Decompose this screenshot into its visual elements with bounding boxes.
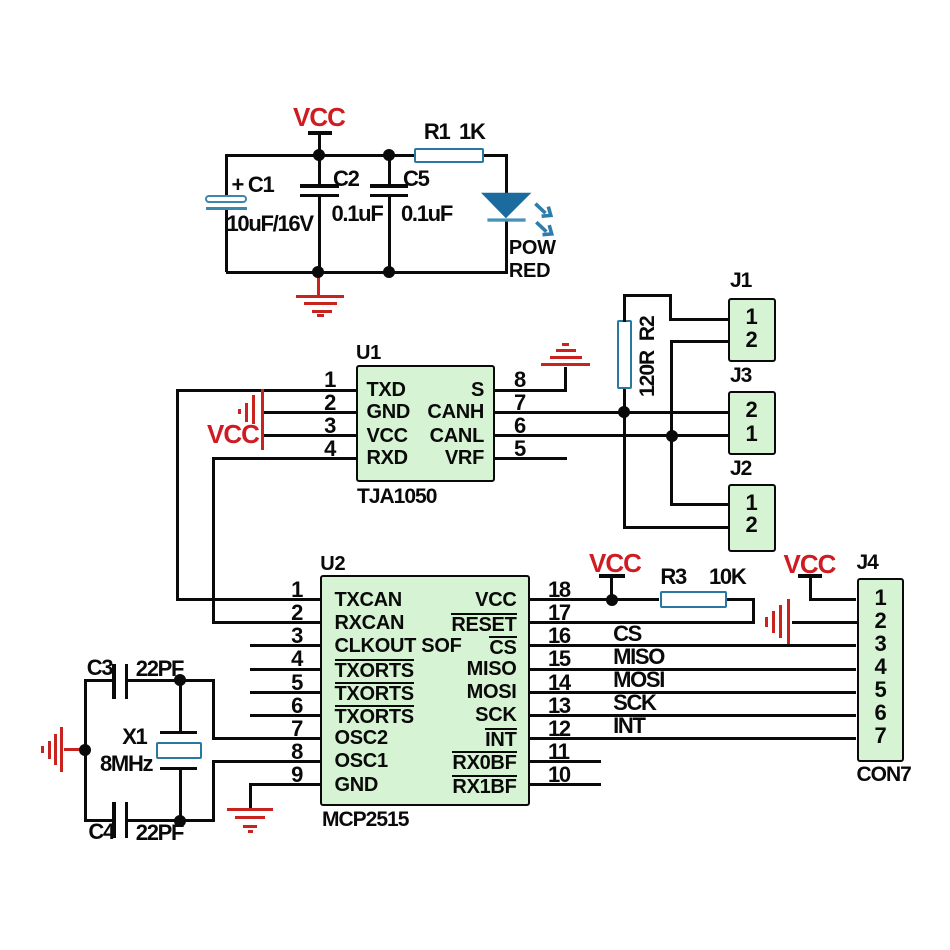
U2 pin number 5 (277, 672, 302, 694)
capacitor C1 (205, 195, 247, 203)
capacitor C2 (318, 155, 321, 185)
label MISO (613, 646, 664, 668)
label RED (509, 261, 550, 281)
connector J1 (728, 298, 775, 363)
U2 pin number 16 (548, 625, 570, 647)
connector J2 (728, 484, 775, 552)
IC U2 MCP2515 (320, 575, 530, 806)
ground power rail (317, 272, 320, 295)
U1 pin number 1 (310, 369, 335, 391)
wire U1 RXD (212, 457, 356, 460)
wire R2 top stem (623, 294, 626, 322)
capacitor C5 (388, 155, 391, 185)
U2 pin number 1 (277, 579, 302, 601)
wire C3 to OSC2 vertical (212, 679, 215, 740)
wire LED cathode vertical (505, 220, 508, 274)
wire LED anode vertical (505, 154, 508, 195)
U2 pin label MISO (417, 659, 517, 679)
wire C4 to OSC1 vertical (212, 760, 215, 822)
label MOSI (613, 669, 664, 691)
wire U2 pin8 OSC1 (212, 760, 321, 763)
wire C1 branch bottom (225, 210, 228, 272)
U2 pin number 10 (548, 764, 570, 786)
wire MOSI (530, 691, 856, 694)
LED D1 (470, 180, 585, 250)
wire J1 pin1 (669, 318, 729, 321)
node crystal gnd junction (79, 744, 91, 756)
U2 pin number 2 (277, 602, 302, 624)
wire U1 VCC pin3 (262, 434, 356, 437)
U2 pin label TX2RTS (335, 705, 414, 727)
connector J3 (728, 391, 775, 455)
wire U1 TXD (176, 389, 356, 392)
U2 pin label CS (417, 636, 517, 658)
U2 pin number 14 (548, 672, 570, 694)
node C2 gnd junction (312, 266, 324, 278)
wire R2 bottom to J2.2 vertical (623, 389, 626, 529)
U1 GND+VCC symbol red bars (261, 389, 264, 450)
U2 pin label TX1RTS (335, 682, 414, 704)
VCC symbol pin18 (589, 550, 641, 576)
wire J1 pin2 (670, 340, 728, 343)
wire U2 pin7 OSC2 (212, 737, 321, 740)
crystal X1 (160, 731, 198, 734)
node pin18 VCC junction (606, 594, 618, 606)
U2 pin number 18 (548, 579, 570, 601)
U2 pin label RX1BF (417, 775, 517, 797)
wire J4 pin1 (809, 598, 856, 601)
capacitor C4 (112, 802, 116, 838)
node X1 bottom junction (174, 815, 186, 827)
wire TXCAN horizontal (176, 598, 320, 601)
wire J2 pin1 (670, 503, 728, 506)
U1 pin label CANL (404, 426, 484, 446)
U1 pin label RXD (367, 448, 408, 468)
U1 pin label VRF (424, 448, 484, 468)
U2 pin number 17 (548, 602, 570, 624)
node VCC rail junction (313, 149, 325, 161)
wire U1 S pin8 (494, 389, 567, 392)
capacitor C3 (112, 664, 116, 699)
wire U2 pin3 stub (250, 644, 320, 647)
U2 pin label RXCAN (335, 613, 405, 633)
wire pin9 gnd vertical (249, 783, 252, 808)
wire RXCAN horizontal (212, 621, 321, 624)
U1 pin number 2 (310, 392, 335, 414)
U2 pin number 13 (548, 695, 570, 717)
U2 pin number 9 (277, 764, 302, 786)
wire crystal left vertical (84, 679, 87, 823)
U2 pin label OSC1 (335, 751, 388, 771)
U1 pin label S (424, 380, 484, 400)
resistor R2 (617, 320, 632, 389)
U2 pin number 12 (548, 718, 570, 740)
wire INT (530, 737, 856, 740)
wire U1 GND pin2 (262, 411, 356, 414)
node CANL J1 junction (666, 430, 678, 442)
U1 pin label VCC (367, 426, 408, 446)
U1 pin number 5 (514, 438, 525, 460)
U2 pin number 3 (277, 625, 302, 647)
U2 pin label OSC2 (335, 728, 388, 748)
U2 pin number 8 (277, 741, 302, 763)
U2 pin label TXCAN (335, 590, 402, 610)
wire GND bottom rail (226, 271, 508, 274)
wire U2 pin17 RESET (530, 621, 755, 624)
wire C3 left (84, 679, 114, 682)
label INT (613, 715, 645, 737)
wire U2 pin4 stub (250, 668, 320, 671)
wire R2 top to J1 jog (623, 294, 672, 297)
U2 pin label RX0BF (417, 751, 517, 773)
wire CANH (494, 411, 728, 414)
wire VRF stub (494, 457, 567, 460)
label POW (509, 238, 556, 258)
wire J2 pin2 (623, 526, 729, 529)
node C5 gnd junction (383, 266, 395, 278)
wire SCK (530, 714, 856, 717)
wire S ground vertical (564, 367, 567, 390)
U1 pin label TXD (367, 380, 406, 400)
U2 pin label VCC (417, 590, 517, 610)
wire J1.2 to CANL vertical (670, 340, 673, 506)
wire TXD to TXCAN vertical (176, 389, 179, 602)
U2 pin number 4 (277, 648, 302, 670)
resistor R1 (414, 148, 485, 163)
wire R3 to RESET (727, 598, 755, 601)
U2 pin number 11 (548, 741, 569, 763)
wire pin11 stub (530, 760, 600, 763)
wire VCC top rail (226, 154, 414, 157)
U1 pin number 8 (514, 369, 525, 391)
label CS (613, 623, 641, 645)
wire C4 left (84, 819, 114, 822)
connector J4 (857, 578, 904, 763)
wire U2 pin9 GND (249, 783, 321, 786)
wire R1 right to LED (484, 154, 508, 157)
U2 pin label GND (335, 775, 379, 795)
wire CS (530, 644, 856, 647)
label SCK (613, 692, 656, 714)
ground J4 pin2 (rotated) (787, 599, 790, 644)
wire pin10 stub (530, 783, 600, 786)
U2 pin number 7 (277, 718, 302, 740)
U1 pin number 7 (514, 392, 525, 414)
wire J4 pin2 (792, 621, 857, 624)
label VCC red U1 (207, 421, 259, 447)
VCC symbol J4 (784, 551, 836, 577)
wire C4 right (128, 819, 213, 822)
U2 pin number 15 (548, 648, 570, 670)
wire RXD to RXCAN vertical (212, 457, 215, 624)
wire C1 branch top (225, 154, 228, 196)
wire MISO (530, 668, 856, 671)
wire U2 pin18 VCC (530, 598, 659, 601)
power VCC symbol (293, 104, 345, 130)
U2 pin label CLKOUT SOF (335, 636, 462, 656)
U2 pin label INT (417, 728, 517, 750)
IC U1 TJA1050 (356, 365, 495, 483)
U1 pin number 4 (310, 438, 335, 460)
ground U2 pin9 (227, 808, 273, 811)
U2 pin number 6 (277, 695, 302, 717)
wire U2 pin5 stub (250, 691, 320, 694)
U1 pin number 3 (310, 415, 335, 437)
node X1 top junction (174, 674, 186, 686)
resistor R3 (660, 591, 727, 609)
wire U2 pin6 stub (250, 714, 320, 717)
ground crystal left (rotated) (64, 748, 86, 751)
node C5 rail junction (383, 149, 395, 161)
ground S pin (inverted) (541, 363, 590, 366)
U2 pin label TX0RTS (335, 659, 414, 681)
U2 pin label RESET (417, 613, 517, 635)
wire C3 right (128, 679, 213, 682)
U1 pin label CANH (404, 402, 484, 422)
U1 pin label GND (367, 402, 411, 422)
node CANH R2 junction (618, 406, 630, 418)
wire CANL (494, 434, 728, 437)
U2 pin label MOSI (417, 682, 517, 702)
U1 pin number 6 (514, 415, 525, 437)
U2 pin label SCK (417, 705, 517, 725)
